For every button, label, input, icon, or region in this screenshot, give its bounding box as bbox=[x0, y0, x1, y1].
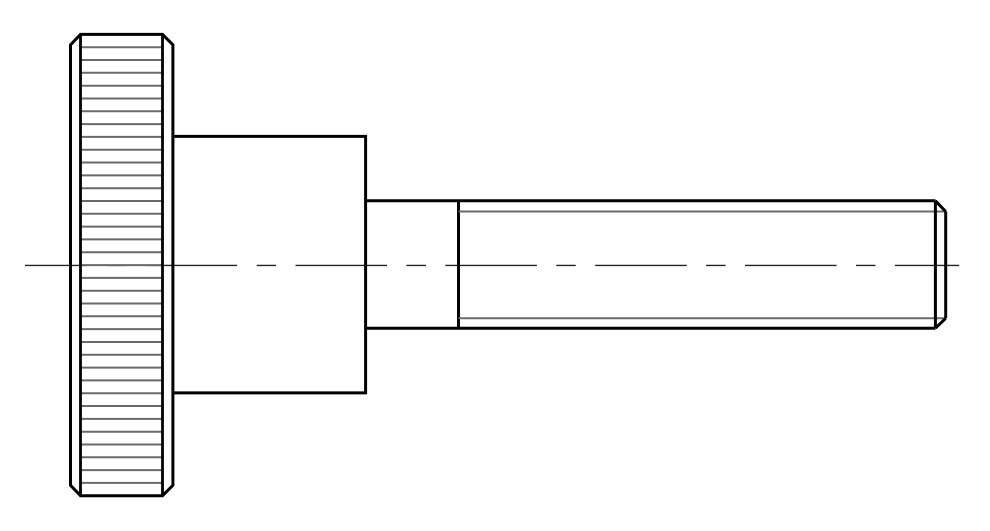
thread root bottom line bbox=[459, 317, 946, 319]
end chamfer bottom diagonal bbox=[935, 318, 945, 328]
thread start vertical line bbox=[457, 201, 460, 328]
shank outer bottom line bbox=[366, 327, 936, 330]
knurled head outline (chamfered octagon) bbox=[71, 34, 173, 495]
collar / shoulder bbox=[173, 136, 366, 393]
shank outer top line bbox=[366, 199, 936, 202]
end face vertical bbox=[944, 212, 947, 319]
thread root top line bbox=[459, 211, 946, 213]
end chamfer top diagonal bbox=[935, 201, 945, 212]
centerline (dash-dot axis) bbox=[25, 264, 959, 266]
knurl hatch lines bbox=[81, 47, 163, 483]
head inner edge right (knurl boundary) bbox=[161, 34, 164, 495]
head inner edge left (knurl boundary) bbox=[79, 34, 82, 495]
end chamfer start vertical bbox=[934, 201, 937, 328]
